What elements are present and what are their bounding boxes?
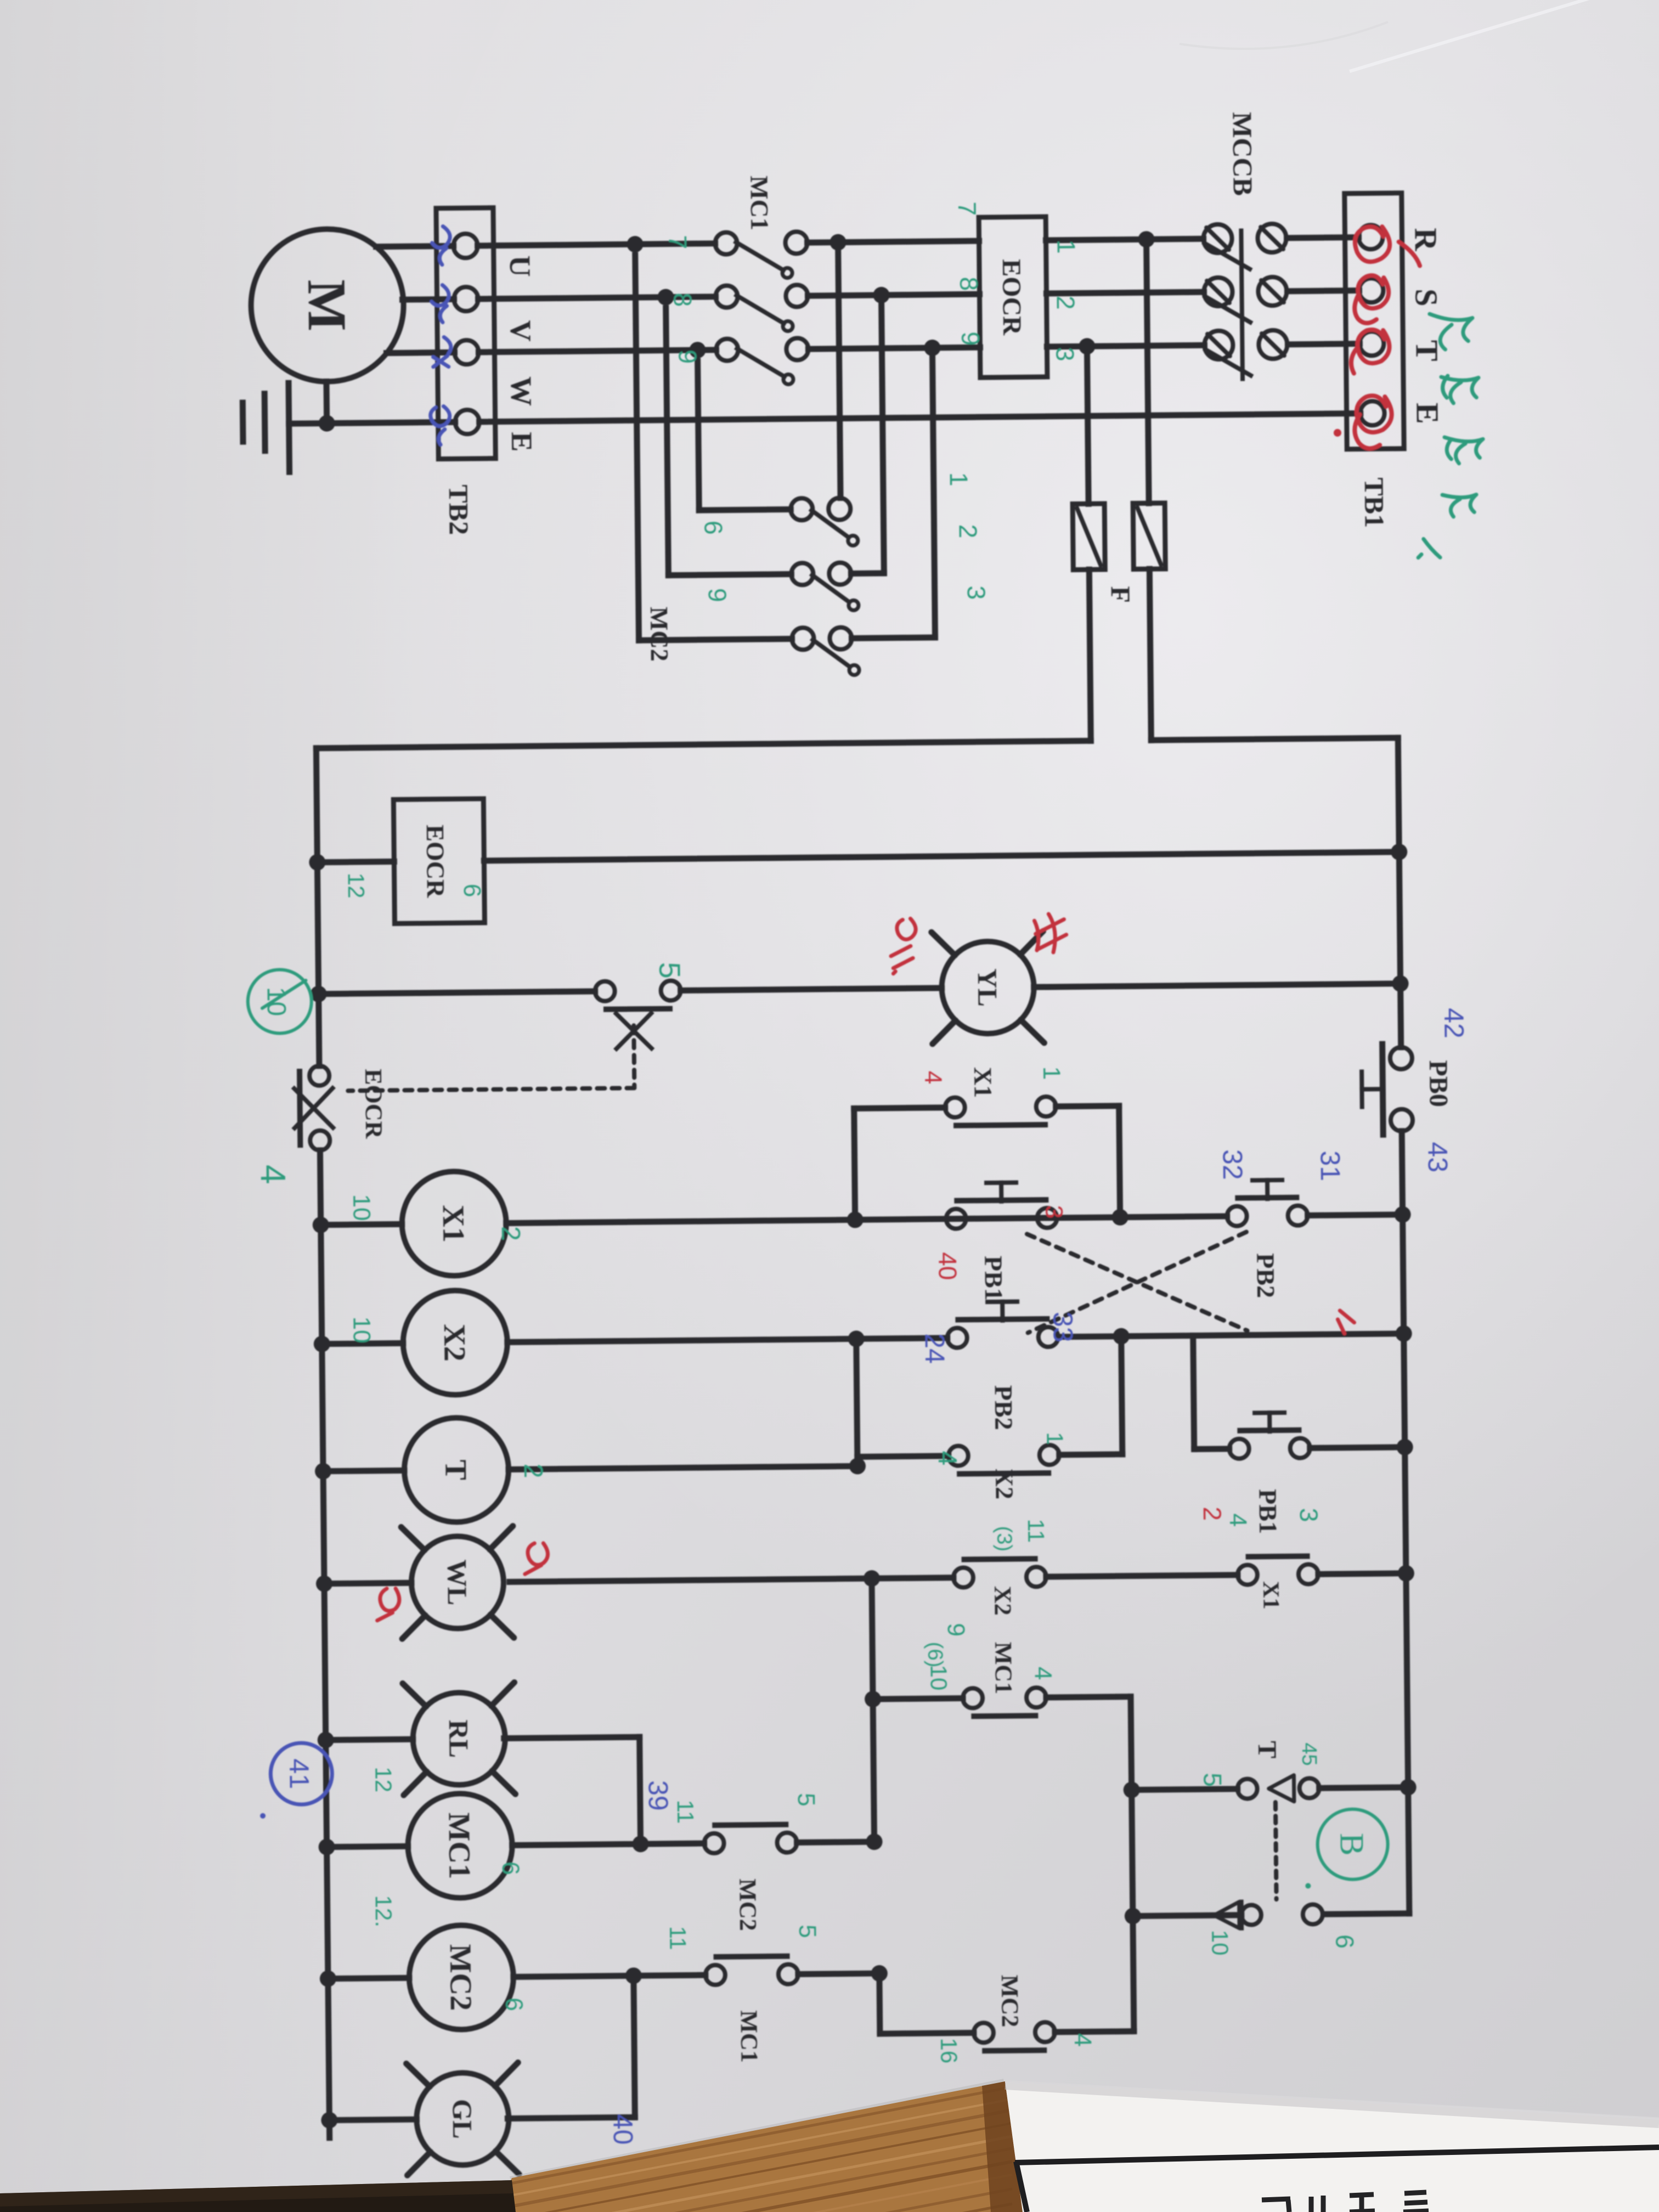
svg-text:X2: X2 — [437, 1324, 472, 1362]
svg-text:9: 9 — [943, 1623, 969, 1637]
svg-text:45: 45 — [1297, 1742, 1321, 1766]
svg-text:U: U — [504, 255, 537, 277]
svg-text:4: 4 — [253, 1164, 293, 1184]
svg-text:3: 3 — [1040, 1205, 1067, 1218]
svg-text:40: 40 — [933, 1252, 962, 1280]
svg-text:(6): (6) — [923, 1642, 946, 1668]
svg-text:X1: X1 — [436, 1205, 471, 1243]
svg-text:2: 2 — [1198, 1506, 1227, 1521]
svg-text:1: 1 — [1042, 1432, 1068, 1445]
svg-text:8: 8 — [955, 276, 983, 291]
svg-text:10: 10 — [1207, 1929, 1233, 1955]
svg-text:GL: GL — [447, 2099, 478, 2139]
svg-text:PB1: PB1 — [1254, 1489, 1282, 1534]
svg-text:41: 41 — [284, 1758, 315, 1789]
svg-text:2: 2 — [954, 524, 983, 538]
svg-text:X1: X1 — [1258, 1581, 1283, 1610]
svg-text:32: 32 — [1217, 1149, 1248, 1180]
svg-text:PB0: PB0 — [1424, 1060, 1453, 1107]
svg-text:M: M — [296, 279, 358, 331]
svg-text:3: 3 — [962, 585, 991, 600]
svg-text:7: 7 — [953, 201, 981, 216]
svg-text:6: 6 — [500, 1997, 527, 2011]
svg-text:3: 3 — [1295, 1508, 1323, 1522]
svg-text:MC1: MC1 — [442, 1812, 476, 1879]
svg-text:EOCR: EOCR — [421, 825, 450, 898]
svg-text:X2: X2 — [989, 1586, 1017, 1616]
svg-text:12: 12 — [343, 873, 369, 899]
svg-text:43: 43 — [1422, 1142, 1453, 1172]
svg-text:3: 3 — [1051, 347, 1079, 362]
svg-text:1: 1 — [1038, 1066, 1065, 1080]
svg-text:10: 10 — [348, 1316, 375, 1343]
svg-text:PB2: PB2 — [1251, 1253, 1280, 1298]
svg-text:10: 10 — [348, 1194, 375, 1221]
svg-text:9: 9 — [673, 349, 702, 364]
svg-text:E: E — [1409, 403, 1445, 424]
svg-text:X2: X2 — [990, 1469, 1019, 1500]
svg-text:YL: YL — [972, 968, 1003, 1007]
svg-text:11: 11 — [1023, 1519, 1049, 1543]
svg-text:6: 6 — [1330, 1934, 1359, 1949]
svg-text:10: 10 — [926, 1664, 951, 1690]
svg-text:6: 6 — [497, 1861, 524, 1875]
svg-text:E: E — [505, 432, 538, 452]
svg-text:W: W — [505, 376, 538, 407]
svg-text:B: B — [1333, 1833, 1370, 1856]
svg-text:42: 42 — [1438, 1008, 1470, 1039]
svg-text:S: S — [1408, 289, 1444, 307]
svg-text:9: 9 — [703, 588, 732, 602]
svg-text:V: V — [504, 320, 537, 342]
svg-text:6: 6 — [699, 521, 727, 535]
svg-text:5: 5 — [1198, 1773, 1227, 1787]
svg-text:2: 2 — [1052, 296, 1080, 310]
svg-text:TB1: TB1 — [1359, 477, 1390, 528]
svg-text:11: 11 — [665, 1926, 691, 1950]
svg-text:12: 12 — [370, 1767, 396, 1792]
svg-text:PB2: PB2 — [990, 1385, 1018, 1430]
svg-text:MC2: MC2 — [734, 1878, 761, 1931]
svg-text:4: 4 — [919, 1071, 946, 1085]
svg-text:2: 2 — [518, 1463, 548, 1478]
svg-text:1: 1 — [1052, 240, 1081, 254]
svg-text:7: 7 — [663, 235, 692, 249]
svg-text:PB1: PB1 — [979, 1256, 1008, 1301]
svg-text:MC2: MC2 — [996, 1975, 1024, 2028]
svg-text:MC1: MC1 — [735, 2010, 763, 2063]
svg-text:WL: WL — [442, 1559, 473, 1605]
svg-text:8: 8 — [668, 292, 697, 307]
svg-text:EOCR: EOCR — [360, 1069, 387, 1139]
svg-text:12.: 12. — [370, 1895, 397, 1927]
svg-text:(3): (3) — [992, 1526, 1015, 1551]
svg-text:MC1: MC1 — [745, 176, 774, 230]
svg-text:MC2: MC2 — [645, 607, 674, 662]
svg-text:4: 4 — [1069, 2033, 1096, 2047]
svg-text:X1: X1 — [969, 1067, 997, 1098]
svg-text:TB2: TB2 — [443, 484, 475, 535]
svg-text:EOCR: EOCR — [997, 259, 1026, 336]
svg-text:16: 16 — [936, 2038, 962, 2063]
svg-text:6: 6 — [459, 884, 486, 898]
svg-text:9: 9 — [956, 331, 985, 346]
svg-text:F: F — [1105, 586, 1136, 603]
svg-text:RL: RL — [443, 1719, 475, 1758]
svg-text:24: 24 — [919, 1333, 951, 1364]
svg-text:1: 1 — [945, 472, 973, 486]
svg-text:R: R — [1408, 228, 1443, 252]
svg-text:MC1: MC1 — [990, 1642, 1017, 1695]
svg-text:5: 5 — [794, 1925, 821, 1938]
svg-text:2: 2 — [496, 1226, 525, 1241]
svg-text:4: 4 — [933, 1451, 962, 1465]
svg-text:T: T — [1252, 1741, 1282, 1759]
svg-text:T: T — [438, 1459, 472, 1480]
svg-text:40: 40 — [607, 2114, 639, 2145]
svg-text:33: 33 — [1047, 1312, 1079, 1342]
svg-text:4: 4 — [1030, 1667, 1057, 1680]
svg-text:MC2: MC2 — [443, 1944, 478, 2011]
svg-text:5: 5 — [793, 1793, 820, 1807]
svg-text:31: 31 — [1314, 1150, 1346, 1181]
svg-text:4: 4 — [1224, 1513, 1251, 1527]
svg-text:11: 11 — [673, 1799, 698, 1824]
svg-text:39: 39 — [642, 1780, 674, 1811]
svg-text:5: 5 — [653, 962, 686, 979]
svg-text:MCCB: MCCB — [1227, 112, 1258, 196]
